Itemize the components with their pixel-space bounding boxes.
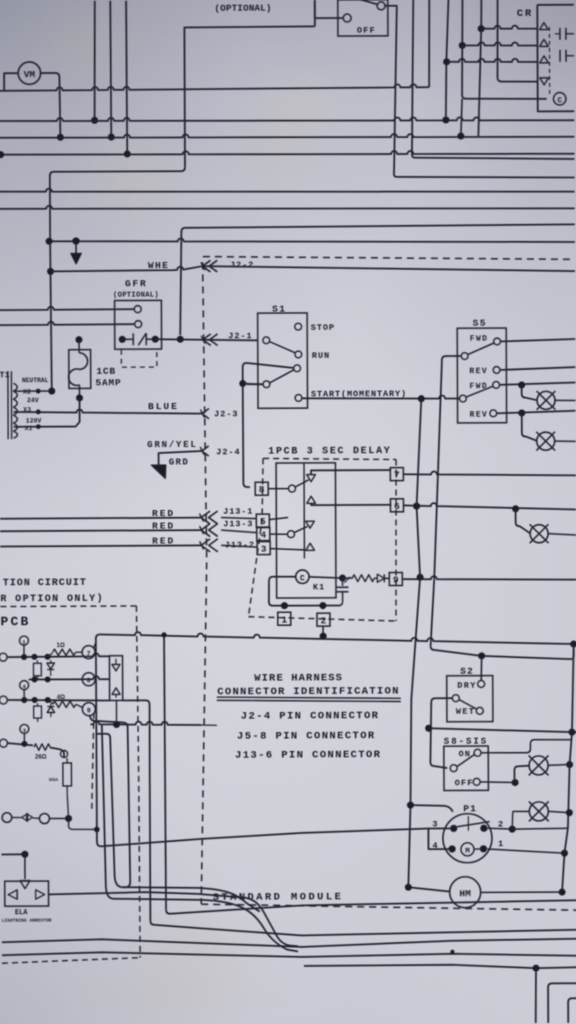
lamp L1 [537, 391, 555, 409]
wire vCR-B drop [461, 0, 464, 45]
node dot pin2 wire [509, 826, 516, 833]
suppressor triangle up [112, 688, 120, 695]
node dot v571 at W3 [568, 729, 575, 736]
svg-text:8: 8 [87, 677, 91, 684]
relay contact K1-a lever [295, 480, 308, 487]
pinbox 8 [255, 482, 268, 495]
pinbox 1 [278, 612, 291, 625]
wire lamp L4 feed [516, 509, 531, 534]
node dot H4 left [0, 151, 4, 158]
S5 REV2 contact [490, 410, 497, 417]
svg-text:WIRE HARNESS: WIRE HARNESS [254, 672, 343, 684]
relay contact K1-b lever [294, 526, 307, 532]
wire lamp L3 out [555, 440, 576, 442]
S5 lever2 [466, 386, 493, 397]
wire v442 down to W2 [429, 362, 443, 646]
spark gap symbols [22, 814, 28, 822]
svg-text:1CB: 1CB [96, 366, 116, 377]
ground arrow GRD [151, 465, 166, 479]
wire S8 ON out [481, 740, 572, 753]
diode K1 out [374, 577, 377, 579]
wire K1 right [309, 577, 342, 579]
wire lamp L2 right [548, 811, 569, 812]
wire REV2 out [497, 411, 576, 414]
transformer T1 core [7, 371, 9, 439]
wire pin9 out [402, 576, 576, 581]
wire w225 from J2-1 node riser [180, 224, 575, 335]
wire elbow H5 to left [50, 167, 186, 241]
wire vertical x51 GFR feed [50, 241, 52, 391]
wire v399 elbow right (full width) [394, 172, 575, 179]
svg-text:9: 9 [393, 575, 399, 586]
wire lamp L5 out [548, 764, 570, 767]
svg-text:RUN: RUN [312, 351, 330, 361]
wire T1 120V tap X1 [14, 398, 80, 427]
svg-text:S8-SIS: S8-SIS [444, 736, 488, 746]
svg-text:TION CIRCUIT: TION CIRCUIT [3, 578, 87, 589]
capacitor at K1 [341, 578, 343, 586]
wire w29 into CR [481, 25, 538, 28]
wire pin1 out [487, 849, 564, 854]
resistor K1 out [352, 575, 374, 582]
svg-text:1: 1 [498, 839, 503, 849]
wire v95 corner to P1 bracket [97, 828, 429, 846]
node dots wire2 [32, 697, 38, 703]
switch S5 box [457, 328, 506, 423]
arrestor ELA box [5, 881, 49, 906]
wire A-branch from W3 down to trunk D [102, 724, 298, 952]
wire W1 (PCB to right) [100, 630, 574, 646]
wire contact b to pin6 [311, 503, 391, 505]
S1 STOP contact [295, 323, 302, 330]
wire DRY feed [480, 656, 483, 681]
switch S-OFF contact B [377, 2, 385, 10]
wire ELA out S-curve to trunk C [49, 891, 298, 947]
svg-text:1Ω: 1Ω [57, 643, 65, 649]
wire GFR input 2 [0, 321, 135, 325]
S1 pole1 contact [263, 337, 270, 344]
connector arrow J2-4 [202, 446, 209, 456]
node dot S1 pole2 [239, 380, 246, 387]
dashed inner segment [91, 713, 94, 809]
wire bus H6 (full width) [0, 186, 575, 194]
wire switch A to left riser [315, 0, 343, 18]
svg-text:1PCB 3 SEC DELAY: 1PCB 3 SEC DELAY [268, 446, 391, 458]
svg-text:C: C [300, 575, 305, 584]
lamp L3 [537, 432, 555, 450]
svg-text:J2-3: J2-3 [214, 409, 238, 419]
PCB input wire 1 [0, 653, 7, 661]
svg-text:WET: WET [456, 707, 476, 717]
PCB mid rail [29, 676, 110, 679]
P1 pin 3 [450, 825, 457, 832]
S8 common contact [450, 765, 457, 772]
wire vF drop [534, 968, 537, 1023]
wire H1 corner up to top edge [428, 0, 431, 87]
wire OFF-B to drop v399 [385, 5, 397, 8]
dashed border standard module left [198, 262, 208, 904]
S8 lever [457, 755, 475, 767]
node junction dot on bus H2 [91, 117, 98, 124]
wire row node elbow to v95 [69, 818, 97, 829]
svg-text:VM: VM [24, 69, 36, 80]
S8 OFF contact [473, 778, 480, 785]
svg-text:24V: 24V [27, 397, 39, 404]
breaker 1CB squiggle [68, 353, 87, 386]
svg-text:CR: CR [517, 8, 533, 20]
P1 pin 2 [480, 825, 487, 832]
wire pin2 to v571 [512, 827, 568, 830]
S1 pole2 upper contact [294, 365, 301, 372]
node dot W1 end [570, 641, 576, 648]
node dot HM right at v571 [559, 889, 566, 896]
node dot H3 right [457, 133, 464, 140]
svg-text:J13-6 PIN CONNECTOR: J13-6 PIN CONNECTOR [235, 749, 381, 762]
switch S-OFF lever [354, 0, 378, 5]
wire rail to pinbox1 [283, 606, 285, 609]
wire W3-left continues under legend [201, 724, 217, 726]
node dot START junction [418, 395, 425, 402]
wire pin5 right [270, 517, 289, 519]
wire WHE to J2-2 [51, 266, 203, 271]
svg-text:5AMP: 5AMP [95, 377, 121, 388]
contact triangle down (c) [306, 521, 315, 528]
node dots wire1 [21, 654, 27, 660]
transformer T1 winding [13, 383, 17, 438]
wire FWD1 out [500, 339, 575, 341]
wire J13-1 to pin5 [221, 517, 256, 518]
wire trunk F [304, 964, 576, 969]
wire HM right [481, 891, 562, 893]
resistor R1 branch [48, 653, 53, 657]
svg-text:9: 9 [87, 707, 91, 714]
wire GRN/YEL to J2-4 [159, 451, 202, 467]
wire contact a to pin7 [311, 470, 391, 475]
svg-text:J13-1: J13-1 [223, 507, 253, 517]
wire w272 inside module (full width) [202, 265, 575, 273]
node dot on CR wire w46 [459, 42, 466, 49]
wire bus H3 (full width) [0, 133, 574, 140]
switch S1 box [258, 313, 308, 408]
wire T1 24V tap X3 (BLUE) [14, 409, 202, 414]
switch S-OFF contact A [343, 14, 351, 22]
connector arrow J2-3 [202, 409, 209, 419]
wire pin7 out [403, 471, 576, 476]
wire w46 into CR [462, 42, 538, 46]
node dot VM lead at H3 [57, 134, 64, 141]
svg-text:GRD: GRD [169, 457, 189, 467]
svg-text:(OPTIONAL): (OPTIONAL) [214, 2, 271, 13]
node dot w240 left [46, 238, 53, 245]
wire vCR-B to CR coil C [462, 45, 547, 99]
wire riser branch to x186 [184, 26, 315, 167]
wire v399 drop [393, 7, 397, 173]
wire GFR output to J2-1 [155, 339, 258, 341]
wire vCR-C drop [480, 0, 482, 29]
dashed box 1PCB top edge [263, 458, 396, 460]
wire v148 start [123, 700, 150, 770]
svg-text:LIGHTNING ARRESTOR: LIGHTNING ARRESTOR [2, 918, 52, 924]
PCB circle 9 [82, 703, 95, 716]
svg-text:ELA: ELA [15, 909, 28, 917]
wire row to fuse node [49, 817, 68, 819]
CR internal dashed link [548, 27, 550, 94]
svg-text:J2-2: J2-2 [230, 260, 254, 270]
CR contact triangle 4 (down) [540, 78, 549, 85]
svg-text:REV: REV [469, 367, 488, 376]
wire J13-3 to pin4 [221, 530, 257, 533]
dashed option box top [0, 605, 136, 608]
wire bus H2 (full width) [0, 116, 574, 123]
wire VM right lead down to H3 [41, 73, 61, 137]
diode column x50 b [50, 704, 52, 706]
dashed link under GFR [121, 350, 157, 368]
S2 WET contact [476, 707, 483, 714]
contact triangle up (d) [306, 543, 315, 550]
wire v148 corner trunk B [150, 919, 576, 936]
svg-text:J2-4 PIN CONNECTOR: J2-4 PIN CONNECTOR [241, 710, 380, 723]
wire w62 into CR [447, 58, 538, 62]
node dot on CR wire w29 [478, 25, 485, 32]
svg-text:3: 3 [261, 544, 267, 555]
svg-text:DRY: DRY [457, 680, 477, 690]
relay coil K1 [296, 570, 309, 583]
P1 pin 4 [448, 845, 455, 852]
node v163 top [161, 632, 166, 637]
wire lamp L5 feed [514, 766, 529, 779]
node dot HM left [405, 884, 412, 891]
wire v571 right riser [561, 644, 575, 892]
CR contact triangle 3 [540, 56, 549, 63]
wire pin8 to contact [268, 488, 288, 490]
diode column x50 a [50, 660, 52, 663]
wire S8 OFF out [480, 781, 515, 784]
arrestor terminal row circle A [2, 813, 12, 823]
pinbox 2 [317, 613, 330, 626]
node junction dot on bus H4 [124, 150, 131, 157]
wire HM left [408, 887, 449, 892]
terminal circle small [60, 750, 67, 757]
resistor R3 [34, 744, 50, 750]
S1 pole2 contact [263, 381, 270, 388]
resistor R2 branch [48, 700, 53, 704]
svg-text:BLUE: BLUE [148, 401, 179, 412]
P1 wiper [457, 822, 490, 827]
P1 center stub [467, 816, 469, 830]
PCB terminal circle 4 [20, 681, 29, 690]
contact triangle down (a) [307, 475, 316, 482]
switch S-OFF box [338, 0, 388, 36]
svg-text:4Ω: 4Ω [57, 695, 65, 701]
wire bus H4 (full width) [0, 150, 574, 157]
svg-text:GFR: GFR [125, 278, 148, 289]
svg-text:PCB: PCB [0, 614, 30, 629]
CR contact triangle 2 [540, 39, 549, 46]
svg-text:8: 8 [259, 484, 265, 495]
GFR contact element [119, 336, 126, 343]
wire pin2 out [487, 828, 512, 829]
wire bus H7 (full width) [0, 204, 575, 211]
CR coil C circle [553, 93, 565, 105]
wire circle9 to v127 drop [90, 716, 130, 888]
svg-text:4: 4 [260, 530, 266, 541]
PCB circle 7 [82, 646, 95, 659]
wire vCR-D elbow to CR triangle-4 [498, 77, 539, 81]
svg-text:7: 7 [394, 470, 400, 481]
ELA triangle left [8, 890, 17, 899]
svg-text:6: 6 [394, 501, 400, 512]
contact triangle up (b) [307, 496, 316, 503]
wire FWD2 out [500, 383, 576, 385]
PCB input wire 2 [0, 696, 7, 704]
svg-text:J2-1: J2-1 [228, 331, 252, 341]
svg-text:26Ω: 26Ω [35, 755, 47, 761]
wire W2 from v442 [482, 655, 572, 659]
connector arrow J2-1 [203, 334, 218, 346]
switch S2 box [447, 676, 493, 722]
dashed option box right [136, 606, 140, 958]
GFR contact circle 2 [135, 321, 142, 328]
wire trunk D [2, 950, 576, 958]
svg-text:OFF: OFF [455, 778, 474, 788]
S2 DRY contact [478, 680, 485, 687]
node dot on W1 [320, 633, 327, 640]
S5 REV1 contact [493, 367, 500, 374]
S1 START contact [295, 395, 302, 402]
svg-text:2: 2 [321, 615, 327, 626]
bottom right box outer [548, 983, 576, 1023]
node dot pin1 at v571 [561, 850, 568, 857]
svg-text:(OPTIONAL): (OPTIONAL) [113, 292, 159, 300]
svg-text:M: M [465, 848, 470, 856]
wire v163 corner trunk A [166, 900, 576, 913]
wire pin4 to contact [270, 533, 288, 535]
svg-text:C: C [557, 97, 562, 105]
S8 ON contact [474, 749, 481, 756]
wire v148 drop [149, 771, 152, 921]
component column x36 b [34, 706, 42, 718]
relay CR box [537, 5, 574, 112]
dashed box 1PCB bottom edge [248, 616, 396, 622]
node dot w240 mid [73, 238, 80, 245]
node junction dot on bus H3 [108, 134, 115, 141]
wire M to pin1 [474, 848, 480, 850]
node dot rail-2 [319, 602, 326, 609]
dashed border standard module top [203, 255, 575, 261]
node dot on CR wire w62 [443, 58, 450, 65]
wire lamp L2 left [513, 810, 530, 812]
pinbox 6 [390, 499, 403, 512]
wire vertical drop 1 (top left) [94, 1, 95, 121]
lamp L2 (at 812) [529, 802, 548, 821]
node dot lamp L5 right [566, 761, 573, 768]
wire lamp L3 feed [522, 413, 537, 441]
wire c7 tap [94, 642, 96, 648]
svg-text:X2: X2 [23, 389, 31, 396]
wire v95 long drop with W1 elbow [96, 634, 101, 841]
wire J13-2 to pin3 [221, 545, 257, 547]
wire v415 elbow right (full width) [412, 154, 575, 160]
wire w240 (dots to right edge) [49, 236, 575, 244]
node dot W2 DRY branch [478, 652, 485, 659]
wire REV1 out [500, 367, 575, 370]
ELA triangle right [36, 890, 45, 899]
node dot ELA [21, 851, 28, 858]
wire RED3 [0, 545, 201, 546]
S2 common contact [452, 695, 459, 702]
PCB input wire 3 [0, 739, 8, 747]
CR contact triangle 1 [540, 23, 549, 30]
svg-text:120V: 120V [26, 418, 42, 425]
svg-text:J5-8 PIN CONNECTOR: J5-8 PIN CONNECTOR [237, 730, 376, 743]
P1 motor M [461, 843, 474, 856]
arrestor terminal row circle B [39, 814, 49, 824]
P1 pin 1 [480, 845, 487, 852]
S1 pole1 lever [269, 341, 295, 352]
node dots mid [32, 676, 38, 682]
wire S1 pole2 loop to node [243, 363, 294, 385]
svg-text:OFF: OFF [357, 26, 376, 36]
node dot pin6 wire [413, 503, 420, 510]
suppressor box [109, 656, 122, 701]
svg-text:J2-4: J2-4 [216, 447, 240, 457]
node dot fuse bottom [65, 815, 72, 822]
wire T1 neutral tap X2 [13, 390, 51, 392]
node dot H2 right [442, 116, 449, 123]
lamp L5 [529, 756, 548, 775]
wire v442 elbow to W2 [431, 646, 482, 656]
wire lamp L1 out [555, 399, 576, 401]
connector arrow J13-1 [201, 511, 218, 524]
svg-text:CONNECTOR IDENTIFICATION: CONNECTOR IDENTIFICATION [217, 686, 399, 699]
node dot rail-1 [281, 602, 288, 609]
node dot REV2 [518, 409, 525, 416]
CR capacitor bars 1 [559, 28, 561, 40]
wire pin2 node up to lamp feed [511, 811, 514, 829]
node dot FWD2 [518, 381, 525, 388]
S2 lever [459, 700, 476, 710]
connector P1 circle [443, 814, 492, 863]
CR capacitor bars 2 [559, 50, 561, 62]
dashed box 1PCB right edge [395, 460, 397, 622]
node dot neutral junction [48, 388, 55, 395]
wire ELA feed [1, 853, 24, 855]
wire ELA drop [24, 854, 26, 879]
node dot suppressor at W3 [113, 721, 120, 728]
wire VM left lead [4, 73, 18, 91]
dashed option box bottom [2, 958, 140, 964]
dashed border standard module bottom [201, 903, 576, 912]
wire RED2 [0, 530, 201, 531]
PCB terminal circle 3 [20, 724, 29, 733]
wire vA START node chain [406, 399, 423, 888]
svg-text:HM: HM [459, 888, 471, 899]
wire v415 drop [411, 0, 414, 154]
wire v163 drop [164, 635, 166, 910]
suppressor triangle down [112, 664, 120, 671]
wire node to pinbox8 (down) [243, 383, 250, 487]
wire vertical drop 2 [109, 1, 112, 137]
svg-text:S5: S5 [473, 318, 487, 329]
wire S2 common loop [430, 698, 453, 768]
wire box2 to W1 [322, 626, 324, 636]
bottom right box inner [568, 998, 576, 1023]
svg-text:FWD: FWD [470, 335, 489, 344]
PCB terminal stub 1 [23, 645, 25, 657]
wire B-branch elbow from v95 down [96, 733, 259, 912]
wire R3 to fuse [50, 747, 64, 758]
svg-text:J13-3: J13-3 [223, 519, 253, 529]
